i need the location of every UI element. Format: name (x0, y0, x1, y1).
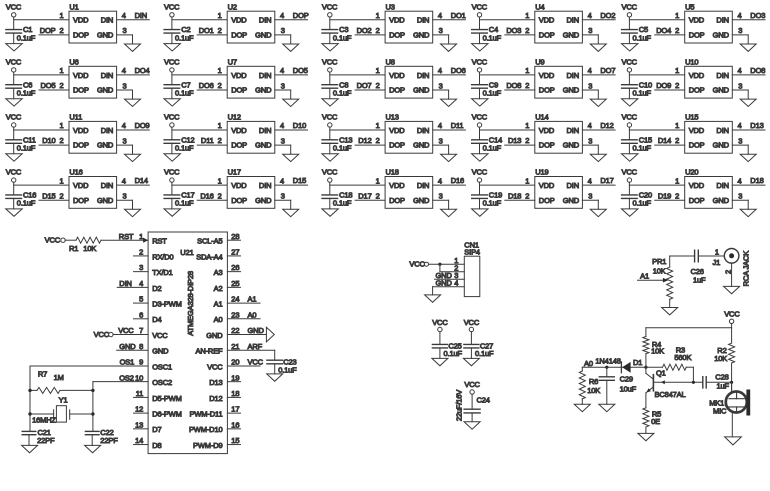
svg-text:DIN: DIN (101, 126, 113, 135)
svg-text:4: 4 (588, 121, 592, 130)
svg-text:D13: D13 (750, 121, 763, 130)
svg-text:VCC: VCC (322, 113, 338, 122)
svg-text:PR1: PR1 (652, 257, 666, 266)
svg-text:VDD: VDD (389, 16, 405, 25)
svg-text:DOP: DOP (231, 86, 247, 95)
svg-text:17: 17 (231, 405, 239, 414)
svg-text:D15: D15 (42, 191, 55, 200)
svg-text:10K: 10K (83, 244, 96, 253)
svg-text:24: 24 (231, 295, 239, 304)
svg-text:DOP: DOP (689, 31, 705, 40)
svg-text:VDD: VDD (231, 71, 247, 80)
svg-text:0.1uF: 0.1uF (333, 33, 352, 42)
svg-text:1: 1 (139, 232, 143, 241)
svg-text:VCC: VCC (6, 2, 22, 11)
svg-text:4: 4 (280, 66, 284, 75)
svg-text:22: 22 (231, 326, 239, 335)
svg-text:OS1: OS1 (120, 358, 135, 367)
svg-text:VCC: VCC (322, 58, 338, 67)
svg-text:DO4: DO4 (656, 26, 671, 35)
svg-text:GND: GND (255, 31, 272, 40)
svg-text:VCC: VCC (207, 362, 223, 371)
svg-text:4: 4 (588, 176, 592, 185)
svg-text:DOP: DOP (539, 86, 555, 95)
svg-text:GND: GND (713, 196, 730, 205)
svg-text:3: 3 (281, 192, 285, 201)
svg-text:2: 2 (675, 136, 679, 145)
svg-text:D3-PWM: D3-PWM (152, 299, 182, 308)
svg-text:2: 2 (376, 81, 380, 90)
svg-text:R1: R1 (69, 244, 78, 253)
svg-text:DOP: DOP (231, 141, 247, 150)
svg-text:1: 1 (59, 66, 63, 75)
svg-text:AN-REF: AN-REF (195, 347, 223, 356)
svg-text:3: 3 (588, 26, 592, 35)
svg-text:Q1: Q1 (656, 368, 666, 377)
svg-text:PWM-D9: PWM-D9 (193, 441, 223, 450)
svg-text:0.1uF: 0.1uF (175, 89, 194, 98)
svg-text:U4: U4 (535, 2, 544, 11)
svg-text:DOP: DOP (389, 86, 405, 95)
svg-text:DO3: DO3 (506, 26, 521, 35)
svg-text:D5-PWM: D5-PWM (152, 394, 182, 403)
svg-text:PWM-D11: PWM-D11 (190, 410, 223, 419)
svg-text:0.1uF: 0.1uF (483, 144, 502, 153)
svg-text:1: 1 (675, 11, 679, 20)
svg-text:2: 2 (675, 191, 679, 200)
svg-text:4: 4 (454, 278, 458, 287)
svg-text:0.1uF: 0.1uF (278, 366, 297, 375)
svg-text:A1: A1 (640, 272, 649, 281)
svg-text:VCC: VCC (432, 318, 448, 327)
svg-text:DO8: DO8 (506, 81, 521, 90)
svg-text:0.1uF: 0.1uF (333, 89, 352, 98)
svg-text:0.1uF: 0.1uF (17, 199, 36, 208)
svg-text:DOP: DOP (73, 196, 89, 205)
svg-text:10K: 10K (651, 347, 664, 356)
svg-text:4: 4 (438, 121, 442, 130)
svg-text:DO5: DO5 (293, 66, 308, 75)
svg-text:VCC: VCC (164, 168, 180, 177)
svg-text:D10: D10 (42, 136, 55, 145)
svg-text:RST: RST (119, 232, 134, 241)
svg-text:4: 4 (122, 121, 126, 130)
svg-text:2: 2 (525, 136, 529, 145)
svg-text:U7: U7 (228, 58, 237, 67)
svg-text:1uF: 1uF (717, 381, 730, 390)
svg-text:DO1: DO1 (199, 26, 214, 35)
svg-text:DO3: DO3 (750, 11, 765, 20)
svg-text:4: 4 (280, 121, 284, 130)
svg-text:SCL-A5: SCL-A5 (197, 237, 222, 246)
svg-text:3: 3 (588, 192, 592, 201)
svg-text:4: 4 (738, 66, 742, 75)
svg-text:DOP: DOP (73, 31, 89, 40)
svg-text:D7: D7 (152, 425, 161, 434)
svg-text:0.1uF: 0.1uF (444, 349, 463, 358)
svg-text:D12: D12 (209, 394, 222, 403)
svg-text:DOP: DOP (689, 141, 705, 150)
svg-text:3: 3 (439, 26, 443, 35)
svg-text:DO8: DO8 (750, 66, 765, 75)
svg-text:U14: U14 (535, 113, 548, 122)
svg-text:DIN: DIN (259, 71, 271, 80)
svg-text:2: 2 (59, 191, 63, 200)
svg-text:U10: U10 (685, 58, 698, 67)
svg-text:GND: GND (713, 31, 730, 40)
svg-text:RST: RST (152, 237, 167, 246)
svg-text:DIN: DIN (259, 181, 271, 190)
svg-text:3: 3 (123, 81, 127, 90)
svg-text:GND: GND (152, 347, 169, 356)
svg-text:DIN: DIN (567, 71, 579, 80)
svg-text:1: 1 (376, 66, 380, 75)
svg-text:A1: A1 (214, 299, 223, 308)
svg-text:2: 2 (139, 248, 143, 257)
svg-text:GND: GND (255, 141, 272, 150)
svg-text:1: 1 (675, 121, 679, 130)
svg-text:VDD: VDD (689, 16, 705, 25)
svg-text:1: 1 (525, 11, 529, 20)
svg-text:4: 4 (122, 176, 126, 185)
svg-text:0.1uF: 0.1uF (17, 144, 36, 153)
svg-text:VDD: VDD (389, 181, 405, 190)
svg-text:0.1uF: 0.1uF (483, 33, 502, 42)
svg-text:VDD: VDD (231, 181, 247, 190)
svg-text:1uF: 1uF (693, 275, 706, 284)
svg-text:20: 20 (231, 358, 239, 367)
svg-text:VDD: VDD (73, 16, 89, 25)
svg-text:D14: D14 (135, 176, 148, 185)
svg-text:D13: D13 (209, 378, 222, 387)
svg-text:DIN: DIN (417, 16, 429, 25)
svg-text:VCC: VCC (322, 168, 338, 177)
svg-text:DOP: DOP (40, 26, 56, 35)
svg-text:DIN: DIN (567, 181, 579, 190)
svg-text:3: 3 (738, 26, 742, 35)
svg-text:DOP: DOP (389, 31, 405, 40)
svg-text:D11: D11 (451, 121, 464, 130)
svg-text:0.1uF: 0.1uF (175, 199, 194, 208)
svg-text:DOP: DOP (389, 196, 405, 205)
svg-text:DO7: DO7 (600, 66, 615, 75)
svg-text:DOP: DOP (539, 31, 555, 40)
svg-text:VCC: VCC (472, 113, 488, 122)
svg-text:U9: U9 (535, 58, 544, 67)
svg-text:ATMEGA328-DIP28: ATMEGA328-DIP28 (186, 271, 195, 336)
svg-text:4: 4 (738, 11, 742, 20)
svg-text:4: 4 (122, 11, 126, 20)
svg-text:DIN: DIN (716, 126, 728, 135)
svg-text:GND: GND (436, 278, 453, 287)
svg-text:16: 16 (231, 420, 239, 429)
svg-text:D18: D18 (508, 191, 521, 200)
svg-text:4: 4 (280, 176, 284, 185)
svg-text:3: 3 (738, 192, 742, 201)
svg-text:C29: C29 (620, 375, 633, 384)
svg-text:DO6: DO6 (451, 66, 466, 75)
svg-text:VDD: VDD (689, 126, 705, 135)
svg-text:1: 1 (525, 121, 529, 130)
svg-text:3: 3 (281, 26, 285, 35)
svg-text:4: 4 (122, 66, 126, 75)
svg-text:2: 2 (59, 81, 63, 90)
svg-text:15: 15 (231, 436, 239, 445)
svg-text:J1: J1 (713, 258, 721, 267)
svg-text:U11: U11 (69, 113, 82, 122)
svg-text:4: 4 (438, 66, 442, 75)
svg-text:GND: GND (413, 141, 430, 150)
svg-text:VDD: VDD (389, 71, 405, 80)
svg-text:VDD: VDD (231, 126, 247, 135)
svg-text:0.1uF: 0.1uF (633, 144, 652, 153)
svg-text:VCC: VCC (464, 318, 480, 327)
svg-text:D10: D10 (293, 121, 306, 130)
svg-text:0.1uF: 0.1uF (17, 33, 36, 42)
svg-text:6: 6 (139, 310, 143, 319)
svg-text:VDD: VDD (73, 71, 89, 80)
svg-text:VCC: VCC (464, 380, 480, 389)
svg-text:Y1: Y1 (59, 396, 68, 405)
svg-text:2: 2 (675, 81, 679, 90)
svg-text:DO9: DO9 (656, 81, 671, 90)
svg-text:3: 3 (123, 192, 127, 201)
svg-text:A0: A0 (214, 315, 223, 324)
svg-text:D1: D1 (633, 358, 642, 367)
svg-text:18: 18 (231, 389, 239, 398)
svg-text:1: 1 (59, 11, 63, 20)
svg-text:GND: GND (255, 86, 272, 95)
svg-text:0.1uF: 0.1uF (633, 199, 652, 208)
svg-text:U17: U17 (228, 168, 241, 177)
svg-text:U19: U19 (535, 168, 548, 177)
svg-text:VCC: VCC (164, 113, 180, 122)
svg-text:U2: U2 (228, 2, 237, 11)
svg-text:OSC1: OSC1 (152, 362, 172, 371)
svg-text:DIN: DIN (135, 11, 147, 20)
svg-text:2: 2 (376, 191, 380, 200)
svg-text:D2: D2 (152, 284, 161, 293)
svg-text:D17: D17 (600, 176, 613, 185)
svg-text:3: 3 (281, 136, 285, 145)
svg-text:23: 23 (231, 310, 239, 319)
svg-text:RCA JACK: RCA JACK (741, 251, 750, 287)
svg-text:0.1uF: 0.1uF (333, 199, 352, 208)
svg-text:C24: C24 (477, 396, 490, 405)
svg-text:DIN: DIN (417, 71, 429, 80)
svg-text:DIN: DIN (567, 16, 579, 25)
svg-text:4: 4 (438, 176, 442, 185)
svg-text:D18: D18 (750, 176, 763, 185)
svg-text:5: 5 (139, 295, 143, 304)
svg-text:3: 3 (588, 136, 592, 145)
svg-text:D12: D12 (600, 121, 613, 130)
svg-text:3: 3 (281, 81, 285, 90)
svg-text:R7: R7 (38, 370, 47, 379)
svg-text:1N4148: 1N4148 (595, 356, 620, 365)
svg-text:D11: D11 (201, 136, 214, 145)
svg-text:A0: A0 (584, 359, 593, 368)
svg-text:VCC: VCC (94, 330, 110, 339)
svg-text:4: 4 (588, 11, 592, 20)
svg-text:VCC: VCC (724, 309, 740, 318)
svg-text:3: 3 (439, 81, 443, 90)
svg-text:DOP: DOP (73, 141, 89, 150)
svg-text:0E: 0E (651, 417, 660, 426)
svg-text:2: 2 (218, 81, 222, 90)
svg-text:DO2: DO2 (357, 26, 372, 35)
svg-text:26: 26 (231, 263, 239, 272)
svg-text:GND: GND (563, 31, 580, 40)
svg-text:560K: 560K (674, 353, 691, 362)
svg-text:4: 4 (738, 176, 742, 185)
svg-text:10K: 10K (653, 266, 666, 275)
svg-text:28: 28 (231, 232, 239, 241)
svg-text:2: 2 (724, 270, 733, 274)
svg-text:25: 25 (231, 279, 239, 288)
svg-text:9: 9 (139, 358, 143, 367)
svg-text:RX/D0: RX/D0 (152, 252, 173, 261)
svg-text:DO4: DO4 (135, 66, 150, 75)
svg-text:1M: 1M (54, 373, 64, 382)
svg-text:2: 2 (59, 136, 63, 145)
svg-text:VDD: VDD (689, 181, 705, 190)
svg-text:0.1uF: 0.1uF (483, 199, 502, 208)
svg-text:GND: GND (563, 86, 580, 95)
svg-text:DO6: DO6 (199, 81, 214, 90)
svg-text:0.1uF: 0.1uF (333, 144, 352, 153)
svg-text:VCC: VCC (472, 2, 488, 11)
svg-text:4: 4 (139, 279, 143, 288)
svg-text:U16: U16 (69, 168, 82, 177)
svg-text:2: 2 (218, 191, 222, 200)
svg-text:VCC: VCC (622, 2, 638, 11)
svg-text:DIN: DIN (716, 181, 728, 190)
svg-text:0.1uF: 0.1uF (175, 144, 194, 153)
svg-text:VDD: VDD (231, 16, 247, 25)
svg-text:VCC: VCC (6, 113, 22, 122)
svg-text:DO1: DO1 (451, 11, 466, 20)
svg-text:0.1uF: 0.1uF (633, 89, 652, 98)
svg-text:2: 2 (376, 136, 380, 145)
svg-text:16MHZ: 16MHZ (32, 416, 56, 425)
svg-text:VCC: VCC (409, 260, 425, 269)
svg-text:D13: D13 (508, 136, 521, 145)
svg-text:DOP: DOP (539, 141, 555, 150)
svg-text:DO9: DO9 (135, 121, 150, 130)
svg-text:2: 2 (59, 26, 63, 35)
svg-text:U18: U18 (386, 168, 399, 177)
svg-text:VCC: VCC (6, 168, 22, 177)
svg-text:DOP: DOP (689, 86, 705, 95)
svg-text:GND: GND (413, 86, 430, 95)
svg-text:MIC: MIC (713, 407, 727, 416)
svg-text:GND: GND (563, 141, 580, 150)
svg-text:1: 1 (376, 121, 380, 130)
svg-text:11: 11 (136, 389, 144, 398)
svg-text:0.1uF: 0.1uF (475, 349, 494, 358)
svg-text:VCC: VCC (164, 58, 180, 67)
svg-text:22PF: 22PF (37, 436, 55, 445)
svg-text:U21: U21 (180, 248, 193, 257)
svg-text:GND: GND (119, 342, 136, 351)
svg-text:GND: GND (413, 31, 430, 40)
svg-text:D16: D16 (451, 176, 464, 185)
svg-text:VDD: VDD (539, 16, 555, 25)
svg-text:14: 14 (135, 436, 143, 445)
svg-text:DO2: DO2 (600, 11, 615, 20)
svg-text:DOP: DOP (231, 196, 247, 205)
svg-text:VCC: VCC (45, 236, 61, 245)
svg-text:1: 1 (218, 11, 222, 20)
svg-text:DOP: DOP (389, 141, 405, 150)
svg-text:3: 3 (139, 263, 143, 272)
svg-text:10K: 10K (714, 354, 727, 363)
svg-text:D4: D4 (152, 315, 161, 324)
svg-text:D12: D12 (358, 136, 371, 145)
svg-text:DOP: DOP (231, 31, 247, 40)
svg-text:VDD: VDD (539, 126, 555, 135)
svg-text:GND: GND (713, 86, 730, 95)
svg-text:2: 2 (218, 136, 222, 145)
svg-text:VDD: VDD (539, 181, 555, 190)
svg-text:U1: U1 (69, 2, 78, 11)
svg-text:1: 1 (525, 176, 529, 185)
svg-text:R6: R6 (589, 377, 598, 386)
svg-text:1: 1 (675, 176, 679, 185)
svg-text:D17: D17 (358, 191, 371, 200)
svg-text:A0: A0 (248, 310, 257, 319)
svg-text:3: 3 (738, 136, 742, 145)
svg-text:4: 4 (280, 11, 284, 20)
svg-text:PWM-D10: PWM-D10 (189, 425, 223, 434)
svg-text:VCC: VCC (322, 2, 338, 11)
svg-text:10uF: 10uF (620, 384, 637, 393)
svg-text:GND: GND (97, 86, 114, 95)
svg-text:U8: U8 (386, 58, 395, 67)
svg-text:1: 1 (218, 121, 222, 130)
svg-text:DO7: DO7 (357, 81, 372, 90)
svg-text:DOP: DOP (293, 11, 309, 20)
svg-text:VDD: VDD (73, 181, 89, 190)
svg-text:VCC: VCC (164, 2, 180, 11)
svg-text:4: 4 (438, 11, 442, 20)
svg-text:1: 1 (218, 176, 222, 185)
svg-text:DIN: DIN (716, 16, 728, 25)
svg-text:VCC: VCC (152, 331, 168, 340)
svg-text:TX/D1: TX/D1 (152, 268, 173, 277)
svg-text:SDA-A4: SDA-A4 (196, 252, 222, 261)
svg-text:3: 3 (439, 192, 443, 201)
svg-text:1: 1 (59, 176, 63, 185)
svg-text:1: 1 (715, 247, 719, 256)
svg-text:VDD: VDD (73, 126, 89, 135)
svg-text:VCC: VCC (472, 168, 488, 177)
svg-text:3: 3 (123, 136, 127, 145)
svg-text:VDD: VDD (689, 71, 705, 80)
svg-text:GND: GND (97, 31, 114, 40)
svg-text:DOP: DOP (539, 196, 555, 205)
svg-text:U6: U6 (69, 58, 78, 67)
svg-text:DOP: DOP (689, 196, 705, 205)
svg-text:DIN: DIN (259, 126, 271, 135)
svg-text:VDD: VDD (539, 71, 555, 80)
svg-text:D19: D19 (658, 191, 671, 200)
svg-text:A1: A1 (248, 295, 257, 304)
svg-text:22PF: 22PF (100, 436, 118, 445)
svg-text:1: 1 (376, 11, 380, 20)
svg-text:C28: C28 (715, 372, 728, 381)
